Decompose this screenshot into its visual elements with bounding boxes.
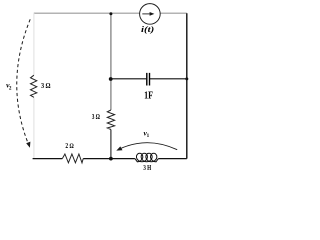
svg-text:1: 1	[147, 133, 150, 139]
wire middle vertical mid	[110, 79, 112, 110]
capacitor C 1F plates	[147, 73, 150, 86]
wire middle vertical upper	[110, 13, 112, 79]
wire middle vertical lower	[110, 130, 112, 159]
node junction right	[185, 77, 188, 80]
svg-text:3 Ω: 3 Ω	[92, 112, 100, 121]
svg-text:3 Ω: 3 Ω	[41, 81, 50, 90]
node junction top	[109, 12, 112, 15]
resistor R left 3ohm zigzag	[31, 75, 37, 97]
wire top right segment	[160, 12, 187, 14]
wire capacitor branch right	[150, 78, 187, 80]
arrow v2 dashed arc	[17, 19, 30, 144]
wire left vertical lower	[33, 97, 35, 158]
resistor R3 2ohm zigzag	[62, 154, 83, 163]
wire right vertical	[186, 13, 188, 158]
node junction middle	[109, 77, 113, 81]
wire top left segment	[34, 12, 140, 14]
svg-text:2 Ω: 2 Ω	[65, 142, 74, 150]
current source U1 circle	[140, 4, 161, 25]
arrow v1 over inductor	[120, 143, 178, 150]
node junction bottom	[109, 157, 113, 161]
svg-text:i(t): i(t)	[141, 25, 155, 34]
wire capacitor branch left	[111, 78, 146, 80]
wire bottom segments	[33, 158, 187, 160]
svg-text:1F: 1F	[144, 91, 153, 102]
svg-text:2: 2	[9, 85, 12, 91]
svg-text:3 H: 3 H	[143, 163, 151, 172]
inductor L 3H coil	[135, 153, 159, 162]
current source arrow	[142, 13, 150, 15]
wire left vertical upper	[33, 13, 35, 75]
resistor R middle 3ohm zigzag	[107, 110, 114, 130]
